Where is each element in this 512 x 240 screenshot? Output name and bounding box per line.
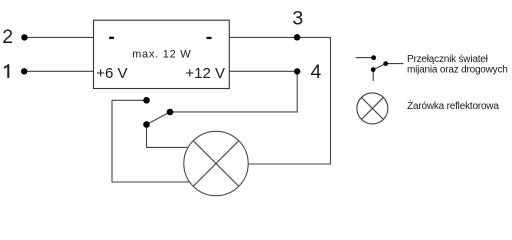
svg-text:2: 2: [2, 26, 13, 48]
svg-text:+12 V: +12 V: [185, 65, 225, 82]
svg-text:4: 4: [311, 61, 322, 83]
svg-text:Żarówka reflektorowa: Żarówka reflektorowa: [407, 99, 499, 112]
svg-text:+6 V: +6 V: [96, 65, 127, 82]
svg-text:max. 12 W: max. 12 W: [132, 48, 191, 60]
svg-text:mijania oraz drogowych: mijania oraz drogowych: [407, 64, 508, 75]
svg-text:Przełącznik świateł: Przełącznik świateł: [407, 54, 489, 65]
svg-text:3: 3: [292, 8, 303, 30]
